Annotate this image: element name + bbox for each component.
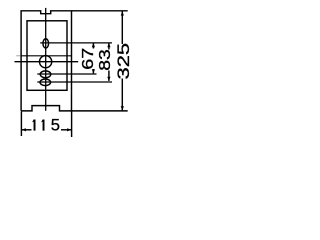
horizontal centerline through circle — [15, 61, 79, 63]
dimension 83 up arrow — [107, 43, 110, 47]
seam line faint left overhang — [16, 55, 20, 57]
dimension 115 text digit 1 (first) — [32, 120, 35, 131]
top edge extension line to 325 dimension — [72, 10, 128, 12]
large circle knockout — [40, 56, 52, 68]
outer outline bottom profile with feet — [21, 106, 71, 111]
svg-text:5: 5 — [51, 116, 60, 135]
leader line from slot B — [37, 81, 112, 83]
dimension 83 line segments — [108, 43, 110, 49]
leader line from slot A — [37, 73, 96, 75]
horizontal seam line — [21, 55, 72, 57]
ellipse slot A — [40, 71, 51, 78]
dimension 115 left arrow — [22, 128, 26, 131]
dimension 83 down arrow — [107, 77, 110, 81]
inner rectangle panel — [27, 21, 67, 91]
svg-text:325: 325 — [114, 43, 133, 80]
leader line from oval to 67/83 dimensions — [40, 42, 112, 44]
svg-text:83: 83 — [96, 49, 114, 71]
dimension 325 up arrow — [121, 11, 124, 15]
ellipse slot B — [40, 79, 51, 86]
small oval knockout — [43, 39, 49, 48]
dimension 115 line segments — [22, 129, 32, 131]
svg-text:67: 67 — [79, 48, 96, 70]
dimension 67 down arrow — [92, 69, 95, 73]
dimension 325 down arrow — [121, 106, 124, 110]
dimension 115 right arrow — [67, 128, 71, 131]
left extension line for 115 — [20, 111, 22, 136]
dimension 67 up arrow — [92, 43, 95, 47]
dimension 325 line segments — [121, 11, 123, 44]
dimension 67 line segments — [92, 43, 94, 48]
outer outline of fixture body with top notch — [21, 11, 71, 111]
vertical centerline — [45, 8, 47, 111]
right extension line for 115 — [71, 111, 73, 137]
dimension 115 text digit 1 (second) — [41, 120, 44, 131]
bottom foot extension line to 325 dimension — [72, 110, 128, 112]
